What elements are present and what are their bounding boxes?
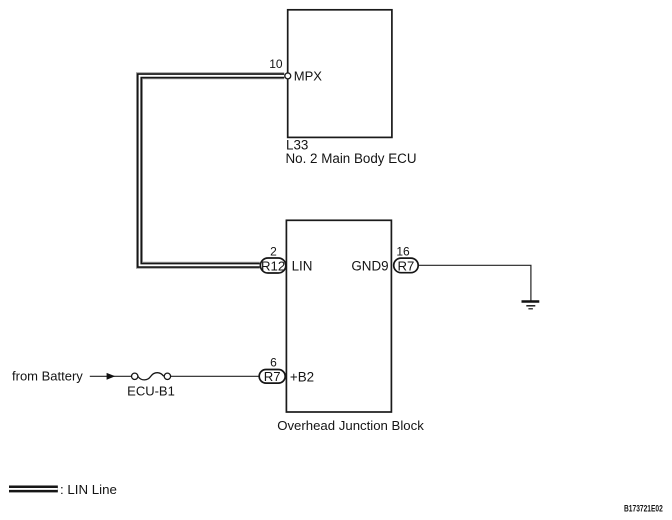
ground symbol	[522, 302, 540, 309]
wire GND9 to ground	[419, 265, 531, 301]
svg-text:16: 16	[396, 244, 410, 258]
svg-text:2: 2	[270, 244, 277, 258]
svg-text:ECU-B1: ECU-B1	[127, 383, 175, 398]
svg-text:from Battery: from Battery	[12, 369, 83, 384]
svg-text:+B2: +B2	[290, 369, 314, 384]
svg-text:: LIN Line: : LIN Line	[60, 482, 117, 497]
svg-text:R7: R7	[264, 369, 281, 384]
svg-text:MPX: MPX	[294, 69, 323, 84]
pin 10 MPX terminal circle	[285, 73, 291, 79]
svg-text:R7: R7	[397, 258, 414, 273]
svg-text:Overhead Junction Block: Overhead Junction Block	[277, 418, 424, 433]
connector oval R12 (pin 2)	[260, 258, 285, 273]
ECU box L33 (No. 2 Main Body ECU)	[288, 10, 392, 138]
connector oval R7 (pin 6)	[259, 369, 285, 384]
svg-text:R12: R12	[261, 258, 285, 273]
svg-text:6: 6	[270, 355, 277, 369]
svg-text:GND9: GND9	[351, 258, 388, 273]
wire from battery (with direction arrow)	[90, 373, 259, 380]
svg-text:LIN: LIN	[292, 258, 313, 273]
svg-text:No. 2 Main Body ECU: No. 2 Main Body ECU	[286, 151, 417, 166]
svg-text:10: 10	[269, 57, 283, 71]
connector oval R7 (pin 16)	[394, 258, 419, 273]
legend LIN line sample	[9, 485, 58, 493]
svg-text:B173721E02: B173721E02	[624, 504, 663, 514]
wire LIN (MPX to R12, double line)	[140, 76, 285, 265]
junction block box	[286, 220, 391, 412]
fuse ECU-B1	[132, 373, 171, 380]
